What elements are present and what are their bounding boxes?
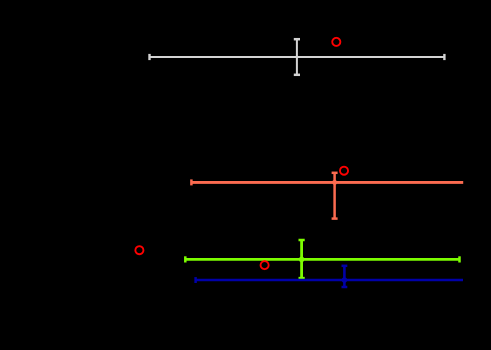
red scatter marker P3 — [135, 246, 143, 254]
node S3 top cap — [299, 239, 305, 242]
wire S2 horizontal line — [191, 181, 463, 184]
node S2 bottom cap — [332, 217, 338, 220]
wire S3 horizontal line — [185, 258, 459, 261]
node S4 top cap — [342, 265, 348, 268]
blue errorbar series S4 — [196, 266, 463, 287]
node S4 left cap — [194, 277, 197, 283]
node S3 right cap — [458, 256, 461, 262]
node S3 bottom cap — [299, 277, 305, 280]
node S3 left cap — [184, 256, 187, 262]
node S1 center marker — [295, 56, 298, 59]
wire S4 horizontal line — [196, 279, 463, 281]
wire S2 vertical line — [333, 173, 336, 219]
gray errorbar series S1 — [150, 39, 445, 75]
wire S4 vertical line — [343, 266, 346, 287]
node S4 center marker — [342, 277, 348, 283]
red scatter marker P4 — [261, 261, 269, 269]
red scatter marker P2 — [340, 167, 348, 175]
node S1 top cap — [294, 38, 300, 41]
node S1 right cap — [443, 54, 445, 60]
wire S1 horizontal line — [150, 56, 445, 58]
wire S3 vertical line — [300, 240, 303, 278]
node S1 bottom cap — [294, 74, 300, 77]
node S2 center marker — [332, 180, 337, 185]
wire S1 vertical line — [296, 39, 298, 75]
node S1 left cap — [148, 54, 150, 60]
node S4 bottom cap — [342, 286, 348, 289]
node S2 left cap — [190, 179, 193, 185]
salmon errorbar series S2 — [191, 173, 463, 219]
red scatter marker P1 — [332, 38, 340, 46]
green errorbar series S3 — [185, 240, 459, 278]
node S2 top cap — [332, 172, 338, 175]
node S3 center marker — [299, 257, 305, 263]
